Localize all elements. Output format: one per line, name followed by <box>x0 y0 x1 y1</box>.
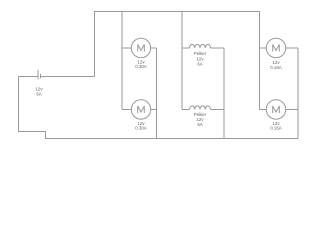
motor M2 circle <box>131 100 150 119</box>
svg-text:0.30A: 0.30A <box>135 126 147 131</box>
wire branch3 left vertical <box>259 12 261 110</box>
motor M1 letter <box>138 45 145 52</box>
wire inductor L2 leads <box>182 109 224 111</box>
inductor L1 label <box>194 51 207 66</box>
motor M3 circle <box>266 38 285 57</box>
wire branch2 left vertical <box>181 12 183 110</box>
motor M1 circle <box>131 38 150 57</box>
svg-text:0.16A: 0.16A <box>270 65 282 70</box>
wire inductor L1 leads <box>182 47 224 49</box>
svg-text:6A: 6A <box>197 61 202 66</box>
svg-text:6A: 6A <box>197 122 202 127</box>
battery V1 label <box>35 87 43 97</box>
wire branch2 right vertical <box>223 48 225 139</box>
wire battery row <box>19 76 95 78</box>
wire branch3 right vertical <box>297 48 299 139</box>
wire bottom left return <box>19 77 299 139</box>
wire motor M3 leads <box>260 47 299 49</box>
motor M3 letter <box>273 45 280 52</box>
motor M3 label <box>270 60 282 70</box>
motor M4 circle <box>266 100 285 119</box>
inductor L2 coil <box>190 106 211 110</box>
wire branch1 left vertical <box>121 12 123 110</box>
motor M2 label <box>135 121 147 131</box>
svg-text:0.16A: 0.16A <box>270 126 282 131</box>
wire motor M1 leads <box>122 47 157 49</box>
inductor L2 label <box>194 112 207 127</box>
wire motor M2 leads <box>122 109 157 111</box>
wire top rail <box>95 12 260 77</box>
inductor L1 coil <box>190 44 211 48</box>
battery V1 symbol <box>38 70 41 80</box>
motor M4 letter <box>273 106 280 113</box>
svg-text:0.30A: 0.30A <box>135 64 147 69</box>
motor M4 label <box>270 121 282 131</box>
motor M2 letter <box>138 106 145 113</box>
motor M1 label <box>135 60 147 70</box>
svg-text:6A: 6A <box>36 92 41 97</box>
wire branch1 right vertical <box>156 48 158 139</box>
wire motor M4 leads <box>260 109 299 111</box>
